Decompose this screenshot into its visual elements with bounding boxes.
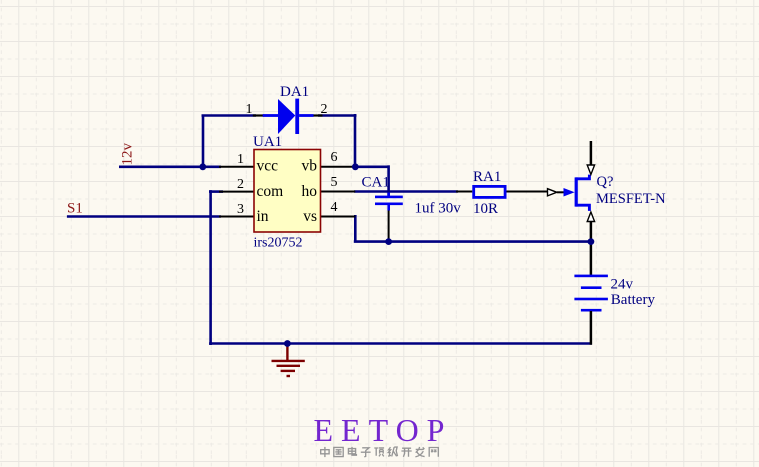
svg-text:6: 6 — [331, 150, 338, 165]
capacitor CA1 bottom lead black — [388, 211, 390, 242]
resistor RA1 body — [474, 186, 505, 197]
pin 3 in stub — [219, 216, 254, 218]
wire diode-loop left vertical — [202, 116, 205, 167]
svg-text:RA1: RA1 — [473, 169, 501, 185]
svg-text:vs: vs — [303, 208, 317, 225]
capacitor CA1 bottom blue lead — [387, 205, 390, 211]
ground stem — [286, 344, 288, 362]
wire pin6 junction to capacitor top — [355, 166, 389, 169]
glyph zi — [361, 448, 371, 457]
wire 12v horizontal into pin 1 — [119, 166, 221, 169]
resistor RA1 left pin — [456, 191, 472, 193]
svg-text:12v: 12v — [120, 143, 136, 166]
logo subtitle chinese (drawn as strokes) — [321, 447, 439, 457]
diode DA1 pin 1 black tip — [253, 114, 264, 116]
capacitor CA1 top blue lead — [387, 193, 390, 197]
svg-text:in: in — [257, 208, 269, 225]
wire diode-loop top right horizontal — [318, 114, 357, 117]
wire vs horizontal rail to mosfet source — [354, 240, 592, 243]
svg-text:10R: 10R — [473, 201, 498, 217]
transistor Q? gate filled arrow — [564, 188, 575, 197]
battery bar 3 long — [574, 298, 608, 301]
svg-text:2: 2 — [321, 102, 328, 117]
junction dot at ground — [284, 340, 291, 347]
diode DA1 pin 2 black tip — [313, 114, 323, 116]
capacitor CA1 bottom plate — [375, 203, 403, 206]
gate wire between arrows — [557, 191, 565, 193]
wire diode-loop top left horizontal — [202, 114, 257, 117]
glyph ding — [374, 448, 384, 457]
resistor RA1 right pin — [507, 191, 549, 193]
transistor Q? source arm — [576, 205, 590, 211]
glyph fa — [415, 447, 424, 457]
svg-text:vcc: vcc — [257, 158, 279, 175]
op-amp U1 body: IC UA1 yellow box — [254, 150, 321, 233]
svg-text:CA1: CA1 — [362, 175, 390, 191]
svg-text:UA1: UA1 — [253, 134, 282, 150]
battery bar 4 short — [581, 309, 602, 312]
glyph zhong — [321, 447, 329, 457]
svg-text:Battery: Battery — [611, 292, 656, 308]
pin 5 ho stub — [321, 191, 356, 193]
svg-text:Q?: Q? — [597, 174, 614, 190]
svg-text:DA1: DA1 — [280, 84, 309, 100]
source wire down to junction — [590, 222, 593, 244]
diode DA1 cathode bar — [295, 99, 299, 134]
diode DA1 blue lead right — [299, 114, 313, 117]
wire ho to resistor RA1 — [354, 190, 458, 193]
wire bottom ground rail — [209, 342, 592, 345]
pin 1 vcc stub — [219, 166, 254, 168]
svg-text:EETOP: EETOP — [314, 412, 453, 448]
ground bar 3 — [281, 370, 295, 372]
svg-text:MESFET-N: MESFET-N — [596, 191, 666, 207]
junction dot at capacitor bottom — [385, 238, 392, 245]
svg-text:1: 1 — [237, 152, 244, 167]
glyph guo — [334, 447, 343, 456]
gate open arrow (pin direction) — [548, 189, 557, 196]
transistor Q? drain arm — [576, 175, 590, 179]
wire diode-loop right vertical down to pin 6 — [354, 114, 357, 167]
svg-text:2: 2 — [237, 177, 244, 192]
svg-text:1uf 30v: 1uf 30v — [415, 201, 462, 217]
junction dot at mosfet source rail — [588, 238, 595, 245]
pin 2 com stub — [219, 191, 254, 193]
pin 6 vb stub — [321, 166, 356, 168]
svg-text:3: 3 — [237, 202, 244, 217]
ground bar 1 — [272, 360, 305, 362]
svg-text:vb: vb — [302, 158, 318, 175]
svg-text:4: 4 — [331, 200, 338, 215]
battery bar 1 long — [574, 275, 608, 278]
svg-text:24v: 24v — [611, 277, 634, 293]
svg-text:irs20752: irs20752 — [254, 236, 303, 251]
drain wire up — [590, 141, 593, 166]
source open arrow — [587, 212, 594, 222]
battery bar 2 short — [581, 286, 602, 289]
svg-text:ho: ho — [302, 183, 318, 200]
svg-text:com: com — [257, 183, 284, 200]
glyph dian — [348, 447, 356, 455]
wire S1 into pin 3 — [67, 215, 221, 218]
diode DA1 blue lead left — [263, 114, 278, 117]
transistor Q? gate bar — [575, 177, 578, 206]
pin 4 vs stub — [321, 216, 356, 218]
wire vs elbow vertical — [354, 215, 357, 242]
battery bottom pin — [590, 311, 593, 345]
svg-text:S1: S1 — [67, 201, 83, 217]
wire capacitor top vertical — [387, 165, 390, 195]
wire junction to battery top — [590, 240, 593, 276]
junction dot at 12v/pin1 — [199, 163, 206, 170]
drain open arrow — [587, 165, 594, 175]
diode DA1 triangle — [278, 99, 295, 134]
ground bar 4 — [287, 375, 291, 377]
wire com vertical down to bottom rail — [209, 190, 212, 345]
svg-text:1: 1 — [246, 102, 253, 117]
svg-text:5: 5 — [331, 175, 338, 190]
ground bar 2 — [277, 365, 301, 367]
wire com elbow horizontal — [209, 190, 223, 193]
glyph wang — [429, 448, 438, 457]
glyph ji — [388, 447, 397, 456]
junction dot at pin6/vb — [352, 163, 359, 170]
glyph kai — [401, 448, 411, 457]
capacitor CA1 top plate — [375, 196, 403, 199]
